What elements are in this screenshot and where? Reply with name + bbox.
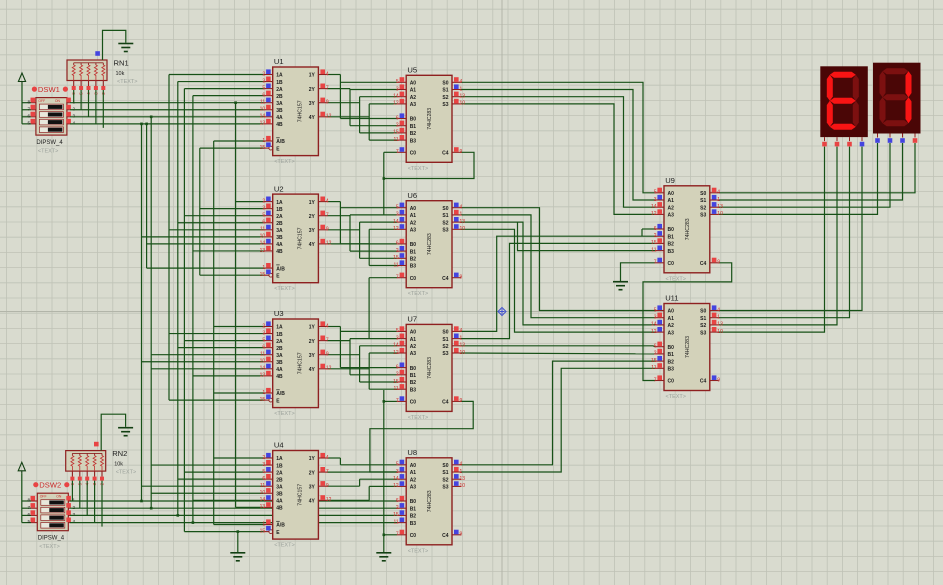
- wire U4.2B: [178, 478, 264, 480]
- svg-text:A0: A0: [410, 463, 417, 469]
- svg-text:10: 10: [717, 211, 723, 217]
- svg-text:C4: C4: [442, 400, 449, 406]
- svg-text:11: 11: [393, 519, 398, 525]
- 7-segment display right (1): [873, 63, 921, 134]
- svg-text:OFF: OFF: [38, 99, 45, 103]
- svg-text:A3: A3: [410, 485, 417, 491]
- svg-text:B0: B0: [410, 117, 417, 123]
- wire U5.S3 to U9.A3: [461, 104, 655, 214]
- wire U7.S1 to U9.B2: [461, 243, 655, 338]
- DSW1 pin 5 stub: [31, 123, 36, 125]
- svg-text:9: 9: [326, 483, 329, 489]
- svg-text:B3: B3: [410, 264, 417, 270]
- svg-text:6: 6: [27, 113, 30, 118]
- wire U3-U7 vert 2: [349, 339, 351, 375]
- svg-text:A0: A0: [668, 309, 675, 315]
- svg-text:10: 10: [460, 226, 466, 232]
- wire U3-U7 vert 4: [368, 353, 370, 389]
- svg-text:13: 13: [460, 476, 466, 482]
- svg-text:A/B: A/B: [276, 139, 285, 145]
- DSW2 pin 4 stub: [68, 522, 70, 524]
- wire U5.S1 to U9.A1: [461, 90, 655, 201]
- svg-text:15: 15: [393, 130, 399, 136]
- wire DSW1 bus 4: [70, 123, 264, 125]
- svg-text:5: 5: [262, 337, 265, 343]
- wire C0 chain upper: [383, 152, 385, 215]
- svg-text:3: 3: [396, 469, 399, 475]
- svg-text:14: 14: [260, 114, 266, 120]
- svg-text:6: 6: [262, 476, 265, 482]
- svg-text:OFF: OFF: [40, 495, 47, 499]
- wire U2-U6 A2 in: [360, 221, 398, 223]
- wire U4.1B: [151, 464, 264, 466]
- svg-text:11: 11: [260, 483, 265, 489]
- wire bundle vertical L7: [192, 96, 194, 523]
- svg-text:11: 11: [260, 352, 265, 358]
- svg-text:4B: 4B: [276, 122, 283, 128]
- wire U4.4A: [193, 499, 264, 501]
- svg-text:6: 6: [396, 241, 399, 247]
- wire U1-U5 B1 in: [350, 125, 397, 127]
- svg-text:A1: A1: [668, 198, 675, 204]
- svg-text:14: 14: [651, 204, 657, 210]
- DSW2 pin 1 stub: [68, 500, 70, 502]
- wire DSW2 bus 1: [70, 500, 397, 502]
- svg-text:4A: 4A: [276, 115, 283, 121]
- svg-text:6: 6: [654, 344, 657, 350]
- svg-text:11: 11: [393, 137, 398, 143]
- wire U2-U6 Y3 jog: [327, 229, 359, 231]
- svg-text:<TEXT>: <TEXT>: [666, 394, 686, 400]
- svg-text:4: 4: [326, 198, 329, 204]
- svg-text:A0: A0: [410, 330, 417, 336]
- wire U9.C0 to ground: [621, 263, 656, 281]
- svg-text:1: 1: [460, 86, 463, 92]
- svg-text:RN2: RN2: [112, 449, 127, 458]
- multiplexer U4: [273, 451, 319, 540]
- svg-text:B3: B3: [410, 138, 417, 144]
- svg-text:4Y: 4Y: [309, 367, 316, 373]
- svg-text:10: 10: [260, 490, 266, 496]
- svg-text:A/B: A/B: [276, 391, 285, 397]
- svg-text:6: 6: [262, 344, 265, 350]
- wire U3-U7 Y3 jog: [327, 354, 359, 356]
- svg-text:9: 9: [717, 377, 720, 383]
- svg-text:S2: S2: [442, 477, 448, 483]
- svg-text:5: 5: [27, 519, 30, 524]
- wire U2-U6 B3 in: [369, 265, 397, 267]
- wire U1-U5 A3 in: [369, 103, 397, 105]
- wire U1-U5 vert 1: [339, 75, 341, 119]
- svg-text:1A: 1A: [276, 73, 283, 79]
- wire U4-U8 Y3 jog: [327, 485, 359, 487]
- svg-text:S3: S3: [700, 330, 706, 336]
- svg-text:2: 2: [262, 455, 265, 461]
- DSW2 pin 8 stub: [31, 500, 37, 502]
- wire U7.C0: [384, 400, 397, 402]
- svg-text:7: 7: [326, 469, 329, 475]
- svg-text:15: 15: [260, 397, 266, 403]
- wire U2.2B: [178, 222, 264, 224]
- svg-text:DIPSW_4: DIPSW_4: [38, 536, 65, 542]
- wire U3-U7 B2 in: [360, 381, 398, 383]
- svg-text:2: 2: [73, 106, 76, 111]
- svg-text:4A: 4A: [276, 242, 283, 248]
- wire U7.C4 loop: [370, 401, 473, 472]
- wire U2.4B: [193, 250, 264, 252]
- svg-text:A2: A2: [410, 95, 417, 101]
- svg-text:A3: A3: [668, 330, 675, 336]
- wire U3-U7 A1 in: [350, 338, 397, 340]
- svg-text:A1: A1: [410, 88, 417, 94]
- svg-text:S1: S1: [442, 470, 448, 476]
- wire U1-U5 B0 in: [340, 118, 397, 120]
- multiplexer U3: [273, 319, 319, 408]
- svg-text:U7: U7: [407, 315, 417, 324]
- wire bundle vertical L8: [199, 148, 201, 275]
- wire U2-U6 Y4 jog: [327, 243, 369, 245]
- svg-text:11: 11: [651, 365, 656, 371]
- wire U3-U7 Y1 jog: [327, 326, 340, 328]
- svg-text:<TEXT>: <TEXT>: [39, 544, 59, 550]
- svg-text:4: 4: [460, 462, 463, 468]
- svg-text:12: 12: [326, 366, 332, 372]
- 7-segment display left (E): [820, 66, 868, 137]
- left display pin 2: [849, 137, 851, 141]
- wire U4.A/B: [214, 524, 264, 526]
- wire RN1 common to ground: [103, 30, 126, 60]
- svg-text:5: 5: [654, 307, 657, 313]
- svg-text:5: 5: [262, 213, 265, 219]
- svg-text:1: 1: [460, 335, 463, 341]
- svg-text:4: 4: [460, 79, 463, 85]
- wire DSW2 left pin 8: [22, 500, 31, 502]
- svg-text:11: 11: [393, 262, 398, 268]
- wire C0 chain lower: [383, 390, 385, 552]
- svg-text:<TEXT>: <TEXT>: [116, 470, 136, 476]
- svg-text:A0: A0: [410, 206, 417, 212]
- svg-text:2A: 2A: [276, 339, 283, 345]
- svg-text:4: 4: [326, 71, 329, 77]
- svg-text:S2: S2: [442, 344, 448, 350]
- svg-text:S1: S1: [700, 316, 706, 322]
- svg-text:S0: S0: [700, 309, 706, 315]
- wire U3.4B: [193, 375, 264, 377]
- wire U5.C0: [384, 151, 397, 153]
- svg-text:A2: A2: [410, 477, 417, 483]
- wire U1.1A: [169, 74, 264, 76]
- svg-text:3Y: 3Y: [309, 228, 316, 234]
- svg-text:13: 13: [260, 121, 266, 127]
- svg-text:7: 7: [326, 213, 329, 219]
- svg-text:15: 15: [393, 512, 399, 518]
- svg-text:9: 9: [460, 149, 463, 155]
- svg-text:1B: 1B: [276, 332, 283, 338]
- svg-text:4A: 4A: [276, 367, 283, 373]
- wire RN2 common to ground: [101, 414, 125, 450]
- wire U2.A/B: [147, 267, 264, 269]
- adder U5: [406, 75, 452, 162]
- wire U2-U6 Y1 jog: [327, 201, 340, 203]
- svg-text:S1: S1: [442, 213, 448, 219]
- adder U11: [664, 304, 710, 391]
- wire U1-U5 vert 4: [368, 104, 370, 140]
- svg-text:S3: S3: [442, 485, 448, 491]
- wire U6.C0 to U7.A1 link: [368, 278, 370, 339]
- wire bundle vertical L6: [183, 89, 185, 532]
- wire U1-U5 Y2 jog: [327, 88, 350, 90]
- svg-text:1Y: 1Y: [309, 325, 316, 331]
- DSW2 pin 3 stub: [68, 514, 70, 516]
- wire bundle vertical L3: [150, 117, 152, 508]
- svg-text:13: 13: [260, 248, 266, 254]
- svg-text:2Y: 2Y: [309, 339, 316, 345]
- svg-text:B2: B2: [410, 131, 417, 137]
- DSW2 pin 2 stub: [68, 507, 70, 509]
- wire U3.2B: [178, 347, 264, 349]
- wire U4-U8 vert 1: [339, 458, 341, 465]
- svg-text:A0: A0: [410, 81, 417, 87]
- ground G3: [376, 552, 391, 554]
- wire RN1 pin 1: [80, 90, 82, 110]
- svg-text:S0: S0: [442, 463, 448, 469]
- svg-text:3: 3: [262, 205, 265, 211]
- left display pin 3: [861, 137, 863, 141]
- svg-text:14: 14: [393, 94, 399, 100]
- wire U2-U6 vert 1: [339, 202, 341, 244]
- wire U2-U6 A1 in: [350, 214, 397, 216]
- dip switch DSW1: [36, 98, 67, 136]
- wire U1-U5 Y3 jog: [327, 102, 359, 104]
- svg-text:6: 6: [262, 92, 265, 98]
- svg-text:10: 10: [717, 329, 723, 335]
- wire U3-U7 Y4 jog: [327, 368, 369, 370]
- svg-text:A0: A0: [668, 191, 675, 197]
- svg-text:4: 4: [326, 455, 329, 461]
- wire U5.C4 loop: [384, 152, 474, 178]
- svg-text:12: 12: [651, 329, 657, 335]
- svg-text:3A: 3A: [276, 101, 283, 107]
- svg-text:6: 6: [396, 498, 399, 504]
- svg-text:S1: S1: [442, 88, 448, 94]
- svg-text:12: 12: [393, 101, 399, 107]
- svg-text:3A: 3A: [276, 484, 283, 490]
- wire U2.2A: [184, 215, 263, 217]
- svg-text:13: 13: [460, 343, 466, 349]
- wire RN2 pin 1: [79, 481, 81, 509]
- svg-text:B0: B0: [668, 227, 675, 233]
- svg-text:<TEXT>: <TEXT>: [274, 286, 294, 292]
- svg-text:A3: A3: [668, 213, 675, 219]
- wire U4-U8 vert 2: [349, 471, 351, 473]
- svg-text:1A: 1A: [276, 325, 283, 331]
- svg-text:C0: C0: [410, 276, 417, 282]
- wire U9.S0 to display: [719, 143, 915, 193]
- svg-text:4B: 4B: [276, 249, 283, 255]
- origin marker: [498, 308, 506, 316]
- svg-text:<TEXT>: <TEXT>: [408, 548, 428, 554]
- svg-text:7: 7: [654, 260, 657, 266]
- svg-text:B3: B3: [668, 249, 675, 255]
- wire U6.S3 to U11.A3: [461, 229, 655, 332]
- wire U6.S0 to U11.A0: [461, 208, 655, 311]
- wire U1-U5 B2 in: [360, 132, 398, 134]
- wire U1.2A: [184, 88, 263, 90]
- svg-text:10k: 10k: [114, 462, 123, 468]
- svg-text:RN1: RN1: [114, 59, 129, 68]
- wire U2-U6 A3 in: [369, 228, 397, 230]
- svg-text:9: 9: [460, 275, 463, 281]
- svg-text:5: 5: [654, 190, 657, 196]
- svg-text:U8: U8: [407, 448, 417, 457]
- wire bundle vertical L9: [213, 141, 215, 525]
- wire U3.4A: [151, 368, 264, 370]
- wire U3-U7 vert 1: [339, 327, 341, 368]
- svg-text:1: 1: [717, 197, 720, 203]
- wire U2-U6 B0 in: [340, 243, 397, 245]
- svg-text:B2: B2: [410, 380, 417, 386]
- svg-text:B2: B2: [668, 242, 675, 248]
- svg-text:14: 14: [393, 219, 399, 225]
- svg-text:A2: A2: [410, 344, 417, 350]
- svg-text:15: 15: [651, 358, 657, 364]
- svg-text:DIPSW_4: DIPSW_4: [36, 140, 63, 146]
- svg-text:S2: S2: [442, 220, 448, 226]
- svg-text:2: 2: [396, 505, 399, 511]
- ground G5: [613, 281, 628, 283]
- svg-text:74HC283: 74HC283: [427, 357, 433, 379]
- left display pin 0: [824, 137, 826, 141]
- svg-text:10: 10: [460, 101, 466, 107]
- wire U8.S0 to U11.B2: [461, 361, 655, 465]
- DSW1 pin 8 stub: [31, 102, 36, 104]
- wire U3.1A: [214, 326, 264, 328]
- svg-text:74HC157: 74HC157: [298, 352, 304, 374]
- svg-text:12: 12: [393, 483, 399, 489]
- svg-text:3B: 3B: [276, 235, 283, 241]
- svg-text:A/B: A/B: [276, 266, 285, 272]
- svg-text:U11: U11: [665, 294, 678, 303]
- svg-text:2A: 2A: [276, 87, 283, 93]
- wire U3-U7 B3 in: [369, 388, 397, 390]
- svg-text:U2: U2: [274, 184, 284, 193]
- svg-text:U3: U3: [274, 309, 284, 318]
- wire U4-U8 A1 in: [350, 471, 397, 473]
- wire U9.S2 to display: [719, 143, 890, 207]
- svg-text:5: 5: [396, 462, 399, 468]
- svg-text:1: 1: [460, 212, 463, 218]
- ground G2: [118, 427, 133, 429]
- svg-text:15: 15: [260, 528, 266, 534]
- svg-text:3Y: 3Y: [309, 101, 316, 107]
- svg-text:3A: 3A: [276, 353, 283, 359]
- wire RN1 pin 4: [102, 90, 104, 128]
- svg-text:<TEXT>: <TEXT>: [274, 411, 294, 417]
- svg-text:C4: C4: [442, 533, 449, 539]
- wire U1-U5 A1 in: [350, 89, 397, 91]
- DSW1 pin 6 stub: [31, 116, 36, 118]
- svg-text:4Y: 4Y: [309, 242, 316, 248]
- svg-text:9: 9: [460, 532, 463, 538]
- svg-text:2B: 2B: [276, 94, 283, 100]
- wire U2-U6 B1 in: [350, 250, 397, 252]
- svg-text:<TEXT>: <TEXT>: [274, 159, 294, 165]
- wire U4.1A: [214, 457, 264, 459]
- svg-text:2: 2: [396, 123, 399, 129]
- wire U11.S3 to display: [719, 147, 825, 333]
- wire U4.4B: [236, 506, 264, 508]
- svg-text:<TEXT>: <TEXT>: [408, 291, 428, 297]
- svg-text:C4: C4: [700, 379, 707, 385]
- wire DSW1 left pin 5: [22, 123, 31, 125]
- svg-text:DSW1: DSW1: [38, 85, 60, 94]
- svg-text:4A: 4A: [276, 499, 283, 505]
- wire U7.S2 to U11.B0: [461, 345, 655, 348]
- left display pin 1: [836, 137, 838, 141]
- svg-text:7: 7: [27, 505, 30, 510]
- wire U2.1A: [236, 201, 264, 203]
- svg-text:ON: ON: [56, 495, 62, 499]
- svg-text:B3: B3: [410, 521, 417, 527]
- DSW1 pin 4 stub: [67, 123, 70, 125]
- svg-text:1A: 1A: [276, 200, 283, 206]
- svg-text:1B: 1B: [276, 80, 283, 86]
- svg-text:13: 13: [460, 219, 466, 225]
- svg-text:1Y: 1Y: [309, 73, 316, 79]
- wire bundle vertical L4: [168, 75, 170, 401]
- svg-text:3: 3: [262, 330, 265, 336]
- svg-text:9: 9: [326, 352, 329, 358]
- wire U3-U7 A0 in: [340, 330, 397, 332]
- svg-text:<TEXT>: <TEXT>: [274, 543, 294, 549]
- svg-text:C0: C0: [410, 533, 417, 539]
- wire U2-U6 B2 in: [360, 257, 398, 259]
- svg-text:5: 5: [262, 85, 265, 91]
- svg-text:1: 1: [262, 521, 265, 527]
- svg-text:B1: B1: [668, 234, 675, 240]
- svg-text:B1: B1: [410, 124, 417, 130]
- svg-text:A1: A1: [410, 337, 417, 343]
- svg-text:8: 8: [27, 498, 30, 503]
- svg-text:3: 3: [654, 315, 657, 321]
- svg-text:13: 13: [717, 322, 723, 328]
- svg-text:6: 6: [396, 115, 399, 121]
- wire U1-U5 vert 3: [359, 97, 361, 133]
- svg-text:S1: S1: [442, 337, 448, 343]
- svg-text:B1: B1: [668, 352, 675, 358]
- wire U1-U5 Y4 jog: [327, 116, 369, 118]
- wire U2.3A: [169, 229, 264, 231]
- svg-text:10: 10: [460, 483, 466, 489]
- svg-text:14: 14: [651, 322, 657, 328]
- svg-text:15: 15: [393, 379, 399, 385]
- svg-text:4: 4: [73, 120, 76, 125]
- wire DSW2 left pin 6: [22, 514, 31, 516]
- wire P1 feed: [21, 84, 23, 124]
- svg-text:A1: A1: [668, 316, 675, 322]
- wire RN2 pin 4: [101, 481, 103, 527]
- ground G4: [230, 552, 245, 554]
- wire DSW2 bus 4: [70, 522, 397, 524]
- wire U3-U7 vert 3: [359, 346, 361, 382]
- wire DSW1 left pin 7: [22, 109, 31, 111]
- wire U4.3A: [142, 485, 264, 487]
- resistor pack RN1: [67, 60, 107, 81]
- svg-text:S0: S0: [442, 330, 448, 336]
- svg-text:1Y: 1Y: [309, 200, 316, 206]
- wire U4.3B: [151, 492, 264, 494]
- svg-text:1Y: 1Y: [309, 456, 316, 462]
